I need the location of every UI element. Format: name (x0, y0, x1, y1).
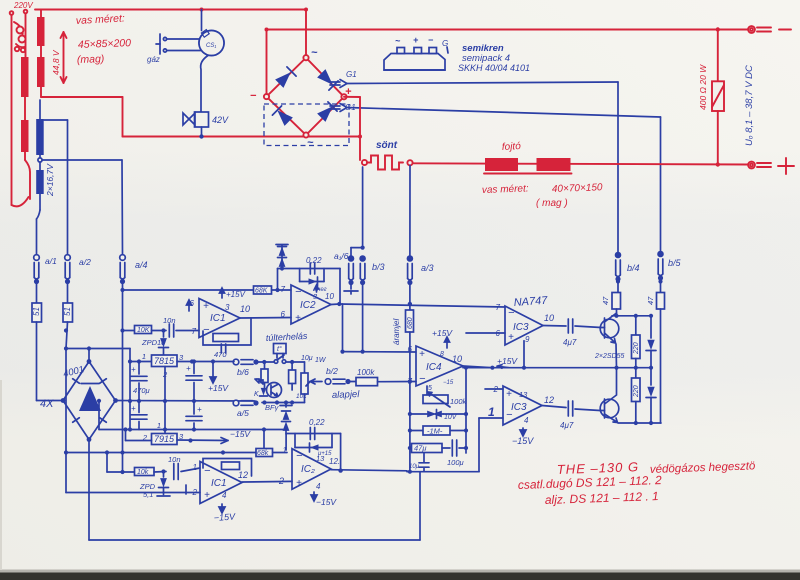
svg-text:7915: 7915 (154, 434, 175, 444)
svg-text:42V: 42V (212, 115, 229, 125)
svg-text:0,22: 0,22 (309, 418, 325, 427)
svg-text:+: + (508, 332, 514, 343)
svg-text:+15V: +15V (226, 290, 246, 299)
svg-text:a/2: a/2 (79, 257, 91, 267)
svg-text:6: 6 (281, 310, 286, 319)
svg-text:b/4: b/4 (627, 263, 640, 273)
svg-text:Δнег: Δнег (312, 287, 327, 293)
svg-text:alapjel: alapjel (332, 389, 361, 401)
svg-text:−: − (204, 465, 211, 477)
svg-text:1: 1 (142, 352, 146, 361)
svg-text:12.: 12. (329, 457, 340, 466)
svg-text:5,1: 5,1 (143, 490, 153, 499)
svg-text:0,22: 0,22 (306, 256, 322, 265)
svg-text:1: 1 (193, 463, 197, 472)
svg-text:68k: 68k (257, 450, 269, 457)
svg-text:ZPD10: ZPD10 (141, 338, 166, 347)
svg-text:+: + (197, 405, 202, 414)
svg-text:45×85×200: 45×85×200 (78, 37, 132, 51)
svg-text:10: 10 (240, 304, 250, 314)
svg-text:10k: 10k (137, 469, 149, 476)
svg-text:470μ: 470μ (133, 386, 150, 395)
svg-text:4μ7: 4μ7 (560, 421, 574, 430)
svg-text:−15V: −15V (230, 429, 251, 439)
svg-text:( mag ): ( mag ) (536, 198, 568, 209)
svg-text:+15V: +15V (432, 328, 453, 338)
svg-text:47: 47 (601, 296, 610, 305)
svg-text:100k: 100k (450, 397, 468, 406)
svg-text:10K: 10K (137, 327, 150, 334)
svg-text:+: + (203, 301, 209, 312)
svg-text:+: + (131, 404, 136, 413)
svg-text:100μ: 100μ (447, 458, 464, 467)
svg-text:68K: 68K (255, 288, 268, 295)
svg-text:~: ~ (395, 36, 401, 46)
svg-text:+: + (295, 313, 301, 324)
svg-text:7815: 7815 (154, 356, 175, 366)
svg-text:~: ~ (311, 47, 318, 59)
svg-text:13: 13 (519, 390, 528, 399)
svg-text:12: 12 (544, 395, 554, 405)
svg-text:+: + (506, 389, 512, 400)
svg-text:IC₂: IC₂ (301, 464, 315, 475)
svg-text:10: 10 (544, 313, 554, 323)
svg-text:-1M-: -1M- (427, 427, 443, 436)
svg-text:2: 2 (278, 476, 284, 486)
svg-text:−15: −15 (443, 380, 454, 386)
svg-text:4: 4 (222, 491, 227, 500)
svg-text:+: + (296, 478, 302, 489)
svg-text:(mag): (mag) (77, 53, 105, 66)
svg-text:−15V: −15V (316, 497, 337, 507)
svg-text:51: 51 (32, 307, 41, 316)
svg-text:470: 470 (214, 350, 227, 359)
svg-text:−15V: −15V (213, 511, 236, 523)
svg-text:IC1: IC1 (211, 478, 227, 489)
svg-text:−: − (419, 373, 426, 385)
svg-text:+: + (204, 490, 210, 501)
svg-text:IC1: IC1 (210, 313, 226, 324)
svg-text:+: + (413, 35, 419, 45)
svg-text:−: − (296, 450, 303, 462)
svg-text:9: 9 (525, 335, 530, 344)
svg-text:10μ: 10μ (301, 355, 313, 362)
svg-text:7: 7 (281, 285, 286, 294)
svg-text:b/3: b/3 (372, 262, 385, 272)
svg-text:NA747: NA747 (513, 295, 548, 309)
svg-text:1W: 1W (315, 357, 327, 364)
svg-text:fojtó: fojtó (502, 141, 522, 153)
svg-text:b/2: b/2 (326, 366, 338, 376)
svg-text:+: + (419, 349, 425, 360)
svg-text:4: 4 (316, 482, 321, 491)
svg-text:10: 10 (452, 354, 462, 364)
svg-text:7: 7 (496, 303, 501, 312)
svg-text:−: − (203, 324, 210, 336)
svg-text:t°: t° (277, 345, 282, 353)
svg-text:IC2: IC2 (300, 300, 316, 311)
svg-text:áramjel: áramjel (392, 319, 401, 345)
svg-text:G1: G1 (346, 70, 357, 79)
svg-text:8: 8 (440, 351, 444, 358)
svg-text:gáz: gáz (147, 55, 160, 64)
svg-text:220: 220 (633, 342, 640, 355)
svg-text:10V: 10V (444, 414, 458, 421)
svg-text:40×70×150: 40×70×150 (552, 182, 603, 195)
svg-text:vas méret:: vas méret: (76, 12, 126, 27)
svg-text:b/5: b/5 (668, 258, 682, 268)
svg-text:51: 51 (63, 307, 72, 316)
svg-text:μ+15: μ+15 (317, 451, 332, 457)
svg-text:+15V: +15V (208, 383, 229, 393)
svg-text:7: 7 (192, 327, 197, 336)
svg-text:−: − (506, 409, 513, 421)
svg-text:100k: 100k (357, 368, 375, 377)
svg-text:a₁/6: a₁/6 (334, 251, 349, 261)
svg-text:IC3: IC3 (513, 322, 529, 333)
svg-text:K: K (254, 391, 259, 398)
svg-text:5: 5 (428, 385, 432, 392)
svg-text:220V: 220V (13, 1, 33, 10)
svg-text:IC4: IC4 (426, 362, 442, 373)
svg-text:220: 220 (633, 385, 640, 398)
svg-text:47: 47 (646, 296, 655, 305)
svg-text:SKKH 40/04 4101: SKKH 40/04 4101 (458, 63, 530, 73)
svg-text:10: 10 (325, 292, 334, 301)
svg-text:a/1: a/1 (45, 256, 57, 266)
svg-text:4: 4 (524, 416, 529, 425)
svg-text:a/3: a/3 (421, 263, 434, 273)
svg-text:1: 1 (488, 405, 495, 419)
svg-text:sönt: sönt (376, 140, 398, 151)
svg-text:−15V: −15V (512, 436, 534, 446)
svg-text:3: 3 (225, 303, 230, 312)
svg-text:Uₒ 8,1 – 38,7 V DC: Uₒ 8,1 – 38,7 V DC (744, 65, 755, 146)
svg-text:a/5: a/5 (237, 408, 249, 418)
svg-text:a/4: a/4 (135, 260, 148, 270)
svg-text:10n: 10n (163, 316, 176, 325)
svg-text:12: 12 (238, 470, 248, 480)
svg-text:47μ: 47μ (414, 444, 426, 453)
svg-text:CS₁: CS₁ (206, 43, 216, 49)
svg-text:4μ7: 4μ7 (563, 338, 577, 347)
svg-text:2×2SD55: 2×2SD55 (594, 353, 624, 360)
svg-text:−: − (295, 286, 302, 298)
svg-text:IC3: IC3 (511, 402, 527, 413)
svg-text:680: 680 (407, 317, 414, 329)
svg-text:−: − (250, 90, 257, 102)
svg-text:44,8 V: 44,8 V (51, 49, 61, 75)
svg-text:−: − (428, 35, 434, 45)
svg-text:vas méret:: vas méret: (482, 183, 529, 196)
svg-text:2×16,7V: 2×16,7V (45, 163, 55, 197)
svg-text:+: + (186, 364, 191, 373)
svg-text:b/6: b/6 (237, 367, 249, 377)
svg-text:+: + (131, 365, 136, 374)
svg-text:400 Ω 20 W: 400 Ω 20 W (698, 64, 708, 110)
svg-text:10n: 10n (168, 455, 181, 464)
svg-text:~: ~ (307, 137, 314, 149)
svg-text:10μ: 10μ (409, 464, 420, 470)
svg-text:−: − (508, 307, 515, 319)
